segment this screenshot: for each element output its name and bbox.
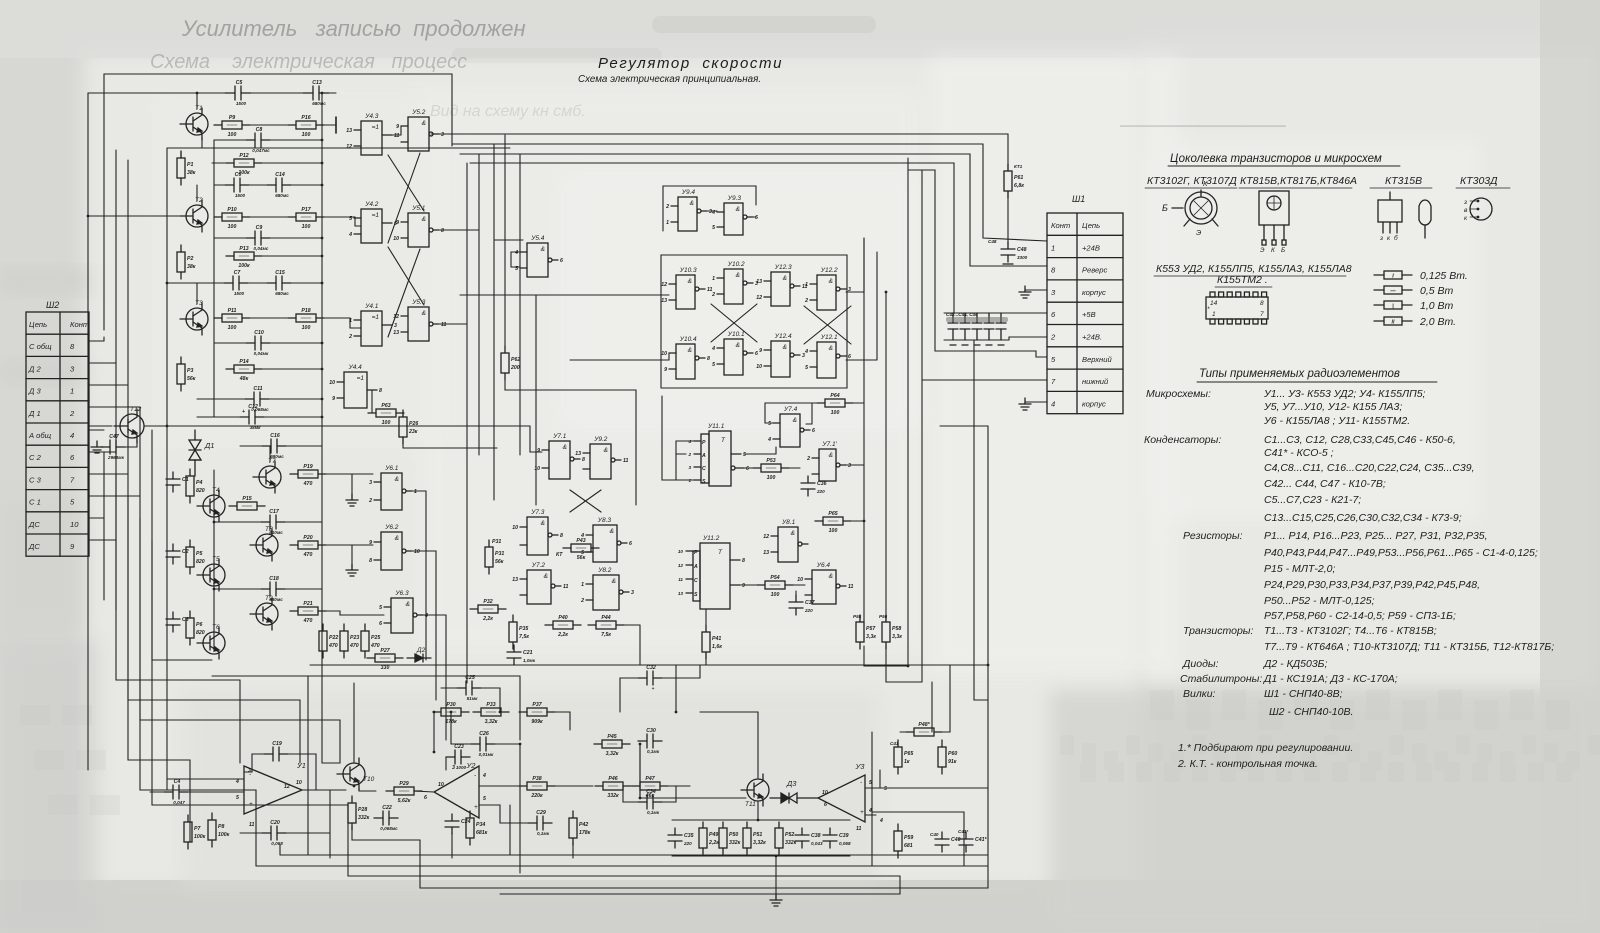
op-amp U2 (434, 761, 479, 818)
svg-text:Конденсаторы:: Конденсаторы: (1144, 434, 1221, 446)
cross wires X3 (711, 304, 757, 342)
svg-text:10: 10 (329, 380, 335, 386)
svg-text:Т7...Т9 - КТ646А ; Т10-КТ3107Д: Т7...Т9 - КТ646А ; Т10-КТ3107Д; Т11 - КТ… (1264, 641, 1554, 653)
svg-text:330: 330 (381, 665, 390, 671)
svg-text:У10.4: У10.4 (679, 336, 697, 343)
capacitor C34 (638, 789, 662, 815)
wire caps top rail (944, 312, 1047, 314)
svg-text:470: 470 (349, 643, 359, 649)
svg-text:6: 6 (560, 258, 563, 264)
svg-text:С12: С12 (248, 404, 258, 410)
transistor pinout KT315 package (1378, 192, 1431, 242)
svg-text:10: 10 (678, 549, 684, 554)
svg-text:Р2: Р2 (187, 256, 193, 262)
svg-text:Т10: Т10 (363, 776, 375, 783)
svg-text:С38: С38 (811, 833, 821, 839)
svg-text:681к: 681к (476, 830, 488, 836)
resistor R27 (367, 648, 403, 671)
wire U9.1 out (846, 464, 864, 466)
svg-text:2: 2 (806, 456, 810, 462)
svg-text:Т11: Т11 (745, 801, 756, 808)
svg-text:4: 4 (482, 773, 486, 779)
svg-text:10: 10 (661, 351, 667, 357)
wire cluster right outs (846, 238, 864, 292)
svg-text:С23: С23 (454, 744, 464, 750)
wire Sh2 riser nest (116, 150, 240, 680)
gate U4.1 (348, 303, 397, 346)
svg-text:38к: 38к (187, 170, 196, 176)
svg-text:У10.1: У10.1 (727, 331, 745, 338)
svg-text:3: 3 (441, 132, 444, 138)
svg-text:&: & (604, 447, 608, 454)
svg-text:820: 820 (196, 488, 205, 494)
capacitor C41 (959, 832, 988, 852)
svg-text:4: 4 (879, 818, 883, 824)
svg-text:С47: С47 (109, 434, 120, 440)
svg-text:Транзисторы:: Транзисторы: (1183, 625, 1254, 637)
gate U10.1 (711, 331, 758, 375)
svg-text:6: 6 (629, 541, 632, 547)
svg-text:ДС: ДС (28, 520, 40, 529)
bus wire B1 to R61 (431, 134, 1008, 171)
svg-text:У6 - К155ЛА8 ; У11- К155ТМ2.: У6 - К155ЛА8 ; У11- К155ТМ2. (1263, 415, 1410, 427)
svg-text:С41: С41 (890, 741, 899, 746)
svg-text:5: 5 (483, 796, 486, 802)
svg-text:С16: С16 (270, 433, 280, 439)
svg-text:820: 820 (196, 559, 205, 565)
svg-text:&: & (736, 342, 740, 349)
wire resistor bank bus (672, 819, 850, 821)
svg-text:корпус: корпус (1082, 399, 1106, 408)
bus wire B4 to pin6 (470, 163, 954, 313)
svg-text:Т4: Т4 (212, 487, 220, 494)
bus wire B3 to pin8 (460, 154, 1047, 266)
svg-text:С14: С14 (275, 172, 285, 178)
svg-text:Р31: Р31 (492, 539, 501, 545)
wire right bus x922 (921, 170, 923, 682)
svg-text:&: & (563, 444, 567, 451)
svg-text:3: 3 (688, 465, 691, 470)
svg-text:3,32к: 3,32к (606, 751, 619, 757)
svg-text:У12.1: У12.1 (820, 334, 838, 341)
svg-text:Р27: Р27 (380, 648, 390, 654)
svg-text:13: 13 (678, 591, 684, 596)
svg-text:+: + (249, 801, 253, 808)
svg-text:Р42: Р42 (579, 822, 588, 828)
capacitor C10 (246, 330, 270, 356)
capacitor C29 (528, 810, 552, 836)
svg-text:100: 100 (382, 420, 391, 426)
ground at C47 (91, 441, 103, 453)
svg-text:11: 11 (394, 133, 399, 139)
svg-text:3: 3 (369, 480, 372, 486)
svg-text:У12.4: У12.4 (774, 333, 792, 340)
resistor R2 (177, 245, 196, 279)
gate U4.4 (329, 364, 382, 408)
svg-text:11: 11 (678, 577, 683, 582)
svg-text:&: & (690, 200, 694, 207)
svg-text:Р12: Р12 (239, 153, 248, 159)
wire left frame vertical (103, 74, 105, 330)
resistor R47 (632, 776, 668, 799)
svg-text:11: 11 (563, 584, 568, 590)
svg-text:К155ТМ2 .: К155ТМ2 . (1217, 274, 1268, 286)
capacitor C17 (261, 509, 285, 535)
svg-text:&: & (829, 345, 833, 352)
wire U10.4 input line (570, 353, 669, 360)
svg-text:+24В: +24В (1082, 243, 1100, 252)
svg-text:5: 5 (884, 786, 887, 792)
wire U5.4 feed (494, 239, 523, 241)
svg-text:Р20: Р20 (303, 535, 312, 541)
svg-text:С17: С17 (269, 509, 280, 515)
capacitor C5 (225, 80, 251, 106)
svg-text:Р4: Р4 (196, 480, 202, 486)
gate U12.1 (804, 334, 851, 378)
svg-text:Вид на схему кн смб.: Вид на схему кн смб. (430, 103, 586, 120)
svg-text:0,5 Вт: 0,5 Вт (1420, 285, 1454, 297)
svg-text:0,1мк: 0,1мк (647, 810, 660, 815)
ground at Sh1 korpus top (1025, 289, 1047, 291)
svg-text:С35: С35 (684, 833, 694, 839)
svg-text:Р52: Р52 (785, 832, 794, 838)
wire nest box (872, 812, 964, 866)
svg-text:100: 100 (228, 325, 237, 331)
svg-text:91к: 91к (948, 759, 957, 765)
svg-text:Р51: Р51 (753, 832, 762, 838)
svg-text:0,125 Вт.: 0,125 Вт. (1420, 270, 1468, 282)
resistor R51 (743, 822, 766, 854)
gate U6.4 (797, 562, 853, 604)
svg-text:С41*: С41* (975, 837, 988, 843)
svg-text:1000: 1000 (456, 765, 467, 770)
svg-text:=1: =1 (372, 124, 380, 131)
diode D2 (407, 647, 431, 662)
svg-text:S: S (694, 592, 698, 598)
svg-text:С37: С37 (805, 600, 816, 606)
wire left lower verticals (189, 760, 191, 842)
svg-text:&: & (612, 578, 616, 585)
svg-text:12: 12 (678, 563, 684, 568)
svg-text:&: & (422, 120, 426, 127)
svg-text:С39: С39 (839, 833, 849, 839)
svg-text:Б: Б (1162, 203, 1168, 213)
svg-text:С4,С8...С11, С16...С20,С22,С24: С4,С8...С11, С16...С20,С22,С24, С35...С3… (1264, 462, 1475, 474)
svg-text:У2: У2 (466, 761, 477, 770)
svg-text:S: S (702, 479, 706, 485)
svg-text:12: 12 (346, 144, 352, 150)
capacitor C30 (638, 728, 662, 754)
svg-text:13: 13 (512, 577, 518, 583)
svg-text:Р40,Р43,Р44,Р47...Р49,Р53...Р5: Р40,Р43,Р44,Р47...Р49,Р53...Р56,Р61...Р6… (1264, 547, 1538, 559)
svg-text:13: 13 (346, 128, 352, 134)
svg-text:14: 14 (1210, 300, 1218, 307)
svg-text:0,01мк: 0,01мк (479, 752, 494, 757)
svg-text:4: 4 (514, 250, 518, 256)
gate U4.2 (348, 201, 397, 243)
svg-text:С29: С29 (536, 810, 546, 816)
svg-text:Р60: Р60 (948, 751, 957, 757)
resistor R57 (856, 615, 876, 649)
resistor R63 (368, 403, 404, 426)
svg-text:1500: 1500 (234, 291, 245, 296)
resistor R53 (753, 458, 789, 481)
svg-text:Р43: Р43 (576, 538, 585, 544)
svg-text:332к: 332к (358, 815, 370, 821)
svg-text:100: 100 (767, 475, 776, 481)
svg-text:С42... С44, С47 - К10-7В;: С42... С44, С47 - К10-7В; (1264, 478, 1386, 490)
svg-text:1: 1 (805, 282, 808, 288)
gate U7.1 (534, 433, 585, 479)
svg-text:220: 220 (804, 608, 813, 613)
wire main left vertical bus (87, 93, 89, 770)
svg-text:38к: 38к (187, 264, 196, 270)
resistor R12 (226, 153, 262, 176)
svg-text:Ш1: Ш1 (1072, 194, 1085, 204)
gate U9.1 (806, 441, 851, 481)
svg-text:Д 2: Д 2 (28, 364, 41, 373)
svg-text:6: 6 (812, 428, 815, 434)
svg-text:5: 5 (805, 365, 808, 371)
svg-text:Р30: Р30 (446, 702, 455, 708)
svg-text:220: 220 (683, 841, 692, 846)
svg-text:з: з (1379, 235, 1383, 242)
svg-text:Д2 - КД503Б;: Д2 - КД503Б; (1263, 658, 1327, 670)
svg-text:8: 8 (379, 388, 382, 394)
svg-text:10: 10 (70, 520, 79, 529)
svg-text:С40: С40 (930, 832, 939, 837)
capacitor C14 (267, 172, 291, 198)
svg-text:10: 10 (756, 364, 762, 370)
capacitor C9 (246, 225, 270, 251)
svg-text:КТ315В: КТ315В (1385, 175, 1422, 187)
svg-text:332к: 332к (729, 840, 741, 846)
svg-text:С19: С19 (272, 741, 282, 747)
wire U9 couple (703, 210, 717, 212)
svg-text:Р38: Р38 (532, 776, 541, 782)
svg-text:1,6к: 1,6к (712, 644, 722, 650)
svg-text:Д 1: Д 1 (28, 409, 41, 418)
wire T10 collector (353, 683, 355, 762)
svg-text:Р25: Р25 (371, 635, 380, 641)
svg-text:100: 100 (831, 410, 840, 416)
svg-text:Цоколевка транзисторов и микро: Цоколевка транзисторов и микросхем (1170, 153, 1382, 165)
wire bus drop x520 (519, 154, 521, 455)
svg-text:С26: С26 (479, 731, 489, 737)
wire right bus x908 (907, 158, 909, 666)
svg-text:С42...С44, С46: С42...С44, С46 (946, 312, 978, 317)
resistor R18 (288, 308, 324, 331)
resistor R52 (775, 822, 797, 854)
svg-text:Р8: Р8 (218, 824, 224, 830)
gate U6.3 (379, 590, 428, 633)
svg-text:Конт: Конт (70, 320, 89, 329)
svg-text:У4.3: У4.3 (364, 113, 379, 120)
svg-text:Р22: Р22 (329, 635, 338, 641)
svg-text:3: 3 (848, 463, 851, 469)
gate U12.2 (804, 267, 851, 310)
svg-text:У4.4: У4.4 (348, 364, 363, 371)
svg-text:12: 12 (661, 282, 667, 288)
wire U10.3 input line (460, 294, 669, 296)
svg-text:ДС: ДС (28, 542, 40, 551)
resistor R55 (815, 511, 851, 534)
svg-text:Р65: Р65 (904, 751, 913, 757)
svg-text:Р23: Р23 (350, 635, 359, 641)
capacitor C18 (261, 576, 285, 602)
svg-text:1,0 Вт: 1,0 Вт (1420, 300, 1454, 312)
wire caps bottom rail (944, 337, 1047, 340)
svg-text:&: & (395, 535, 399, 542)
svg-text:Р17: Р17 (301, 207, 311, 213)
svg-text:У7.2: У7.2 (531, 562, 546, 569)
transistor pinout KT303 circle (1463, 198, 1492, 222)
gate U5.4 (514, 235, 563, 277)
resistor R22 (319, 624, 338, 658)
svg-text:С25: С25 (465, 675, 475, 681)
svg-text:нижний: нижний (1082, 377, 1109, 386)
wire top frame (104, 74, 452, 146)
svg-text:У8.1: У8.1 (781, 519, 796, 526)
svg-text:11: 11 (623, 458, 628, 464)
resistor R41 (702, 625, 722, 659)
svg-text:0,068мс: 0,068мс (380, 826, 398, 831)
wire nest A (864, 665, 908, 667)
zener D3 (770, 779, 818, 803)
capacitor C36 (801, 476, 827, 496)
svg-text:2,0 Вт.: 2,0 Вт. (1419, 316, 1456, 328)
resistor R59 (894, 824, 913, 858)
svg-text:10: 10 (393, 236, 399, 242)
svg-text:56к: 56к (495, 559, 504, 565)
capacitor C38 (795, 828, 823, 848)
svg-text:С15: С15 (275, 270, 285, 276)
svg-text:С11: С11 (253, 386, 262, 392)
gate U4.3 (346, 113, 399, 155)
svg-text:6: 6 (848, 354, 851, 360)
svg-text:У8.3: У8.3 (597, 517, 612, 524)
svg-text:Р13: Р13 (239, 246, 248, 252)
resistor R16 (288, 115, 324, 138)
svg-text:Р15: Р15 (242, 496, 251, 502)
capacitor C16 (262, 433, 286, 459)
svg-text:5: 5 (743, 452, 746, 458)
svg-text:Д1: Д1 (204, 441, 214, 450)
svg-text:Р54: Р54 (770, 575, 779, 581)
resistor R28 (348, 796, 370, 830)
resistor R14 (226, 359, 262, 382)
svg-text:Р28: Р28 (358, 807, 367, 813)
svg-text:Р53: Р53 (766, 458, 775, 464)
transistor T6 (197, 624, 225, 659)
svg-text:2968мк: 2968мк (107, 455, 125, 460)
wire bottom rail 2 (348, 875, 900, 877)
svg-text:100: 100 (228, 132, 237, 138)
gate U9.4 (665, 189, 712, 231)
resistor R37 (519, 702, 555, 725)
resistor power legend (1374, 270, 1468, 282)
svg-text:У10.3: У10.3 (679, 267, 697, 274)
wire bottom rail 0 (280, 854, 988, 856)
svg-text:1,0мк: 1,0мк (523, 658, 536, 663)
svg-text:2,2к: 2,2к (557, 632, 568, 638)
svg-text:7,5к: 7,5к (519, 634, 529, 640)
wire cluster left edge (535, 295, 537, 505)
resistor R58 (882, 615, 902, 649)
svg-text:б: б (1394, 234, 1398, 242)
svg-text:8: 8 (560, 533, 563, 539)
svg-text:С32: С32 (646, 665, 656, 671)
gate U9.3 (711, 195, 758, 235)
svg-text:23к: 23к (408, 429, 418, 435)
gate U9.2 (575, 436, 628, 479)
svg-text:100: 100 (302, 224, 311, 230)
svg-text:Схема электрическая принципиал: Схема электрическая принципиальная. (578, 74, 761, 85)
wire right bus x864 (863, 238, 865, 622)
resistor R8 (208, 813, 230, 847)
svg-text:С48: С48 (988, 239, 997, 244)
svg-text:Р1: Р1 (187, 162, 193, 168)
svg-text:&: & (736, 206, 740, 213)
transistor T5 (197, 556, 225, 591)
svg-text:А: А (693, 564, 698, 570)
svg-text:Микросхемы:: Микросхемы: (1146, 388, 1211, 400)
cross wires X1 (388, 153, 420, 243)
wire mid risers to bottom (572, 842, 574, 858)
bleed-through blobs (1060, 735, 1600, 782)
svg-text:Ш2 - СНП40-10В.: Ш2 - СНП40-10В. (1269, 706, 1353, 718)
svg-text:Цепь: Цепь (29, 320, 47, 329)
wire nest B (871, 732, 873, 812)
svg-text:470: 470 (303, 552, 313, 558)
op-amp U3 (818, 762, 865, 822)
svg-text:Т2: Т2 (195, 197, 203, 204)
svg-text:=1: =1 (357, 375, 365, 382)
svg-text:13: 13 (763, 550, 769, 556)
wire verh vertical (908, 170, 1047, 357)
svg-text:&: & (406, 601, 410, 608)
capacitor C22 (374, 805, 398, 831)
svg-text:С6: С6 (235, 172, 242, 178)
svg-text:У9.4: У9.4 (681, 189, 696, 196)
svg-text:8: 8 (369, 558, 372, 564)
resistor R35 (509, 615, 529, 649)
transistor T11 (741, 774, 769, 806)
svg-text:Р44: Р44 (601, 615, 610, 621)
capacitor C48 (1001, 242, 1028, 262)
resistor R21 (290, 601, 326, 624)
svg-text:Р62: Р62 (511, 357, 520, 363)
svg-text:5,62к: 5,62к (398, 798, 411, 804)
svg-text:Р18: Р18 (301, 308, 310, 314)
svg-text:Типы применяемых радиоэлементо: Типы применяемых радиоэлементов (1199, 368, 1400, 380)
svg-text:5: 5 (712, 225, 715, 231)
svg-text:У12.2: У12.2 (820, 267, 838, 274)
resistor R33 (473, 702, 509, 725)
svg-text:&: & (688, 347, 692, 354)
bleed-through handwriting ghosts (150, 16, 1287, 133)
transistor pinout KT815 package (1259, 191, 1289, 254)
svg-text:Э: Э (1196, 228, 1201, 237)
svg-text:──────────────────: ────────────────── (1119, 118, 1287, 133)
capacitor C13 (303, 80, 329, 106)
svg-text:Р11: Р11 (228, 308, 237, 314)
svg-text:Р29: Р29 (399, 781, 408, 787)
svg-text:0,04мс: 0,04мс (254, 246, 269, 251)
wire row1 base (167, 147, 510, 149)
svg-text:4: 4 (235, 779, 239, 785)
svg-text:Диоды:: Диоды: (1182, 658, 1219, 670)
